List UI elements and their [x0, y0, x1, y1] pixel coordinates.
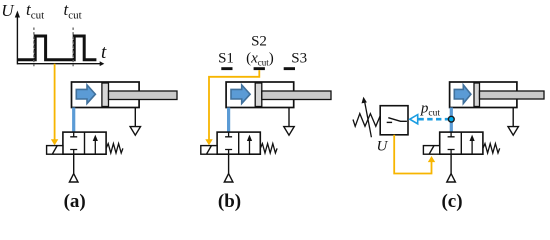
valve (a) divider	[84, 132, 86, 154]
cylinder (b) rod	[262, 91, 331, 100]
cylinder (a) piston	[102, 83, 109, 107]
node junction dot	[448, 116, 454, 122]
valve (a) return spring	[106, 144, 123, 153]
cursor 2 white dashes over pulse edge	[72, 35, 74, 61]
signal wire (orange) from plot to valve pilot (a)	[54, 64, 56, 141]
signal wire (orange) from S2 to valve pilot (b)	[209, 70, 259, 140]
pressure switch spring arrow	[365, 102, 372, 138]
exhaust triangle (b)	[284, 127, 294, 136]
valve (a) blocked port top	[70, 132, 77, 137]
valve (c) divider	[460, 132, 462, 154]
cursor 1 white dashes over pulse edge	[33, 35, 35, 61]
valve (b) solenoid pilot	[201, 146, 217, 155]
valve (c) blocked port bottom	[448, 150, 455, 155]
flow arrow (b) blue	[231, 85, 250, 104]
cylinder (a) body	[72, 82, 140, 108]
exhaust triangle (a)	[130, 127, 140, 136]
tube cylinder to valve (b) blue	[227, 108, 230, 133]
valve (c) blocked port top	[448, 132, 455, 137]
x-axis	[17, 63, 100, 65]
exhaust triangle (c)	[508, 127, 518, 136]
svg-text:pcut: pcut	[420, 101, 440, 119]
valve (a) flow path arrow	[94, 138, 96, 154]
valve (b) blocked port top	[225, 132, 232, 137]
svg-text:(xcut): (xcut)	[246, 50, 274, 67]
cylinder (b) body	[226, 82, 294, 108]
valve (b) body	[217, 132, 260, 154]
svg-text:(b): (b)	[218, 191, 241, 212]
svg-text:S1: S1	[218, 50, 234, 66]
cylinder (a) rod	[109, 91, 178, 100]
dashed pressure signal line p_cut	[418, 118, 450, 121]
supply line (b)	[228, 154, 230, 173]
signal wire (orange) from switch to valve pilot (c)	[394, 135, 431, 174]
valve (b) divider	[238, 132, 240, 154]
open arrowhead into switch	[410, 115, 418, 124]
svg-text:tcut: tcut	[26, 0, 44, 21]
sensor S1 mark	[221, 67, 232, 70]
tube cylinder to valve (c) blue	[450, 108, 453, 133]
exhaust line (b)	[288, 108, 290, 127]
switch contact inside U1	[387, 121, 392, 123]
valve (c) flow path arrow	[471, 138, 473, 154]
signal trace U(t)	[18, 36, 97, 60]
cylinder (c) piston	[474, 83, 480, 107]
svg-text:(c): (c)	[441, 191, 462, 212]
sensor S3 mark	[284, 67, 295, 70]
flow arrow (a) blue	[76, 85, 95, 104]
exhaust line (c)	[512, 108, 514, 127]
y-axis	[16, 16, 18, 64]
tube cylinder to valve (a) blue	[72, 108, 75, 133]
pressure switch spring (adjustable)	[353, 114, 380, 127]
dashed cursor line 1	[33, 28, 35, 67]
cylinder (b) piston	[255, 83, 262, 107]
svg-text:U: U	[377, 139, 389, 155]
exhaust line (a)	[134, 108, 136, 127]
cylinder (c) body	[450, 82, 517, 108]
flow arrow (c) blue	[454, 85, 471, 104]
svg-text:S2: S2	[251, 34, 267, 50]
valve (c) solenoid pilot	[423, 146, 439, 155]
supply triangle (a)	[69, 174, 78, 182]
svg-text:U: U	[1, 1, 15, 20]
supply triangle (c)	[447, 174, 456, 182]
sensor S2 mark	[254, 67, 265, 70]
valve (c) return spring	[483, 144, 500, 153]
dashed cursor line 2	[72, 28, 74, 67]
svg-text:t: t	[101, 42, 107, 63]
valve (a) blocked port bottom	[70, 150, 77, 155]
valve (a) solenoid pilot	[47, 146, 63, 155]
cylinder (c) rod	[480, 91, 545, 99]
svg-text:tcut: tcut	[64, 0, 82, 21]
svg-text:(a): (a)	[64, 191, 86, 212]
supply triangle (b)	[224, 174, 233, 182]
valve (a) body	[63, 132, 106, 154]
pressure switch box U1	[380, 106, 408, 135]
valve (c) body	[440, 132, 483, 154]
valve (b) flow path arrow	[249, 138, 251, 154]
svg-text:S3: S3	[291, 50, 307, 66]
valve (b) blocked port bottom	[225, 150, 232, 155]
supply line (a)	[73, 154, 75, 173]
supply line (c)	[450, 154, 452, 173]
valve (b) return spring	[260, 144, 277, 153]
